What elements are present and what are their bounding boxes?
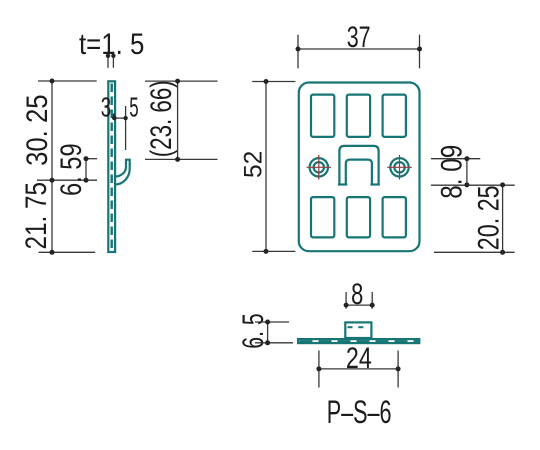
plate front outline (299, 83, 420, 252)
slot top-right (383, 95, 406, 137)
slot bottom-middle (347, 197, 370, 237)
svg-text:P–S–6: P–S–6 (327, 394, 392, 430)
hidden dashes in bottom bar (300, 340, 419, 342)
hole left (310, 158, 328, 176)
dim t dots (106, 54, 116, 58)
svg-text:8: 8 (351, 278, 363, 311)
plate bottom outline (298, 339, 419, 343)
slot bottom-right (383, 197, 406, 237)
hole left center mark (red) (307, 155, 332, 180)
svg-text:20. 25: 20. 25 (473, 185, 506, 250)
svg-text:8. 09: 8. 09 (435, 145, 468, 199)
hole right (390, 158, 408, 176)
dim lines left (37, 81, 97, 252)
svg-text:(23. 66): (23. 66) (145, 80, 178, 157)
plate side outline (108, 81, 115, 252)
hidden dashed centerline of plate (110, 84, 112, 252)
svg-text:30. 25: 30. 25 (21, 95, 54, 166)
svg-text:5: 5 (129, 91, 138, 122)
svg-text:6. 59: 6. 59 (55, 143, 88, 196)
hole right center mark (red) (387, 155, 412, 180)
svg-text:52: 52 (240, 151, 268, 178)
slot top-left (311, 95, 334, 137)
hook section rect (345, 322, 371, 338)
dim t leader lines (108, 56, 113, 68)
slot top-middle (347, 95, 370, 137)
slot bottom-left (311, 197, 334, 237)
svg-text:24: 24 (346, 342, 372, 375)
hook front view (staple/arch) outer (338, 146, 380, 185)
hidden dashes in hook section (348, 326, 364, 328)
svg-text:21. 75: 21. 75 (20, 182, 53, 250)
hook (side view) (115, 160, 130, 185)
